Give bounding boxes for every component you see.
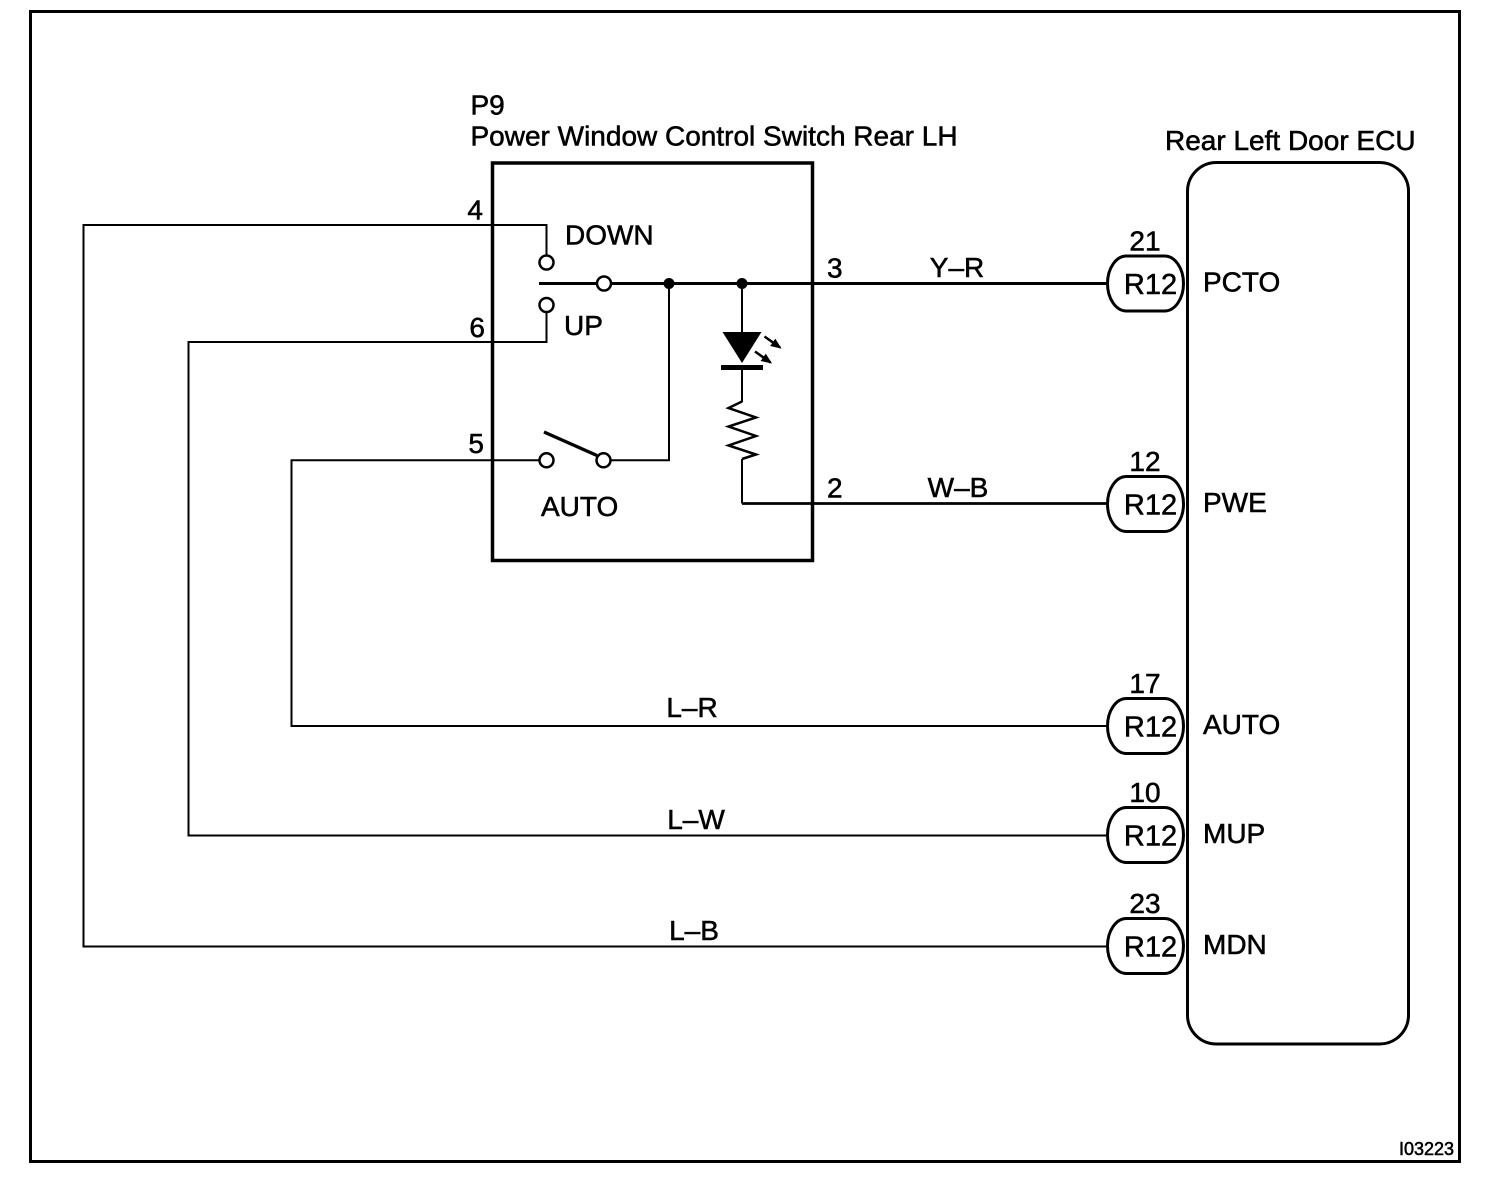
svg-text:AUTO: AUTO — [1203, 709, 1280, 740]
svg-text:10: 10 — [1129, 777, 1160, 808]
svg-text:AUTO: AUTO — [541, 491, 618, 522]
svg-text:12: 12 — [1129, 446, 1160, 477]
svg-text:2: 2 — [827, 473, 843, 504]
svg-text:Rear Left Door ECU: Rear Left Door ECU — [1165, 125, 1416, 156]
svg-text:L–R: L–R — [666, 692, 717, 723]
svg-text:R12: R12 — [1124, 712, 1177, 744]
svg-text:MUP: MUP — [1203, 818, 1265, 849]
svg-text:L–W: L–W — [667, 804, 725, 835]
svg-text:PCTO: PCTO — [1203, 267, 1280, 298]
svg-text:DOWN: DOWN — [565, 220, 654, 251]
svg-text:21: 21 — [1129, 226, 1160, 257]
svg-text:3: 3 — [827, 253, 843, 284]
svg-text:23: 23 — [1129, 888, 1160, 919]
svg-text:R12: R12 — [1124, 490, 1177, 522]
svg-text:R12: R12 — [1124, 821, 1177, 853]
svg-text:6: 6 — [469, 312, 485, 343]
svg-text:17: 17 — [1129, 668, 1160, 699]
svg-text:Y–R: Y–R — [930, 252, 984, 283]
svg-text:4: 4 — [467, 195, 483, 226]
svg-text:I03223: I03223 — [1399, 1139, 1454, 1159]
svg-text:UP: UP — [564, 310, 603, 341]
svg-text:5: 5 — [468, 428, 484, 459]
svg-text:W–B: W–B — [928, 472, 989, 503]
svg-text:R12: R12 — [1124, 269, 1177, 301]
svg-text:R12: R12 — [1124, 932, 1177, 964]
svg-text:MDN: MDN — [1203, 929, 1267, 960]
svg-text:P9: P9 — [471, 90, 505, 121]
svg-text:PWE: PWE — [1203, 487, 1267, 518]
svg-text:L–B: L–B — [669, 915, 719, 946]
svg-text:Power Window Control Switch Re: Power Window Control Switch Rear LH — [471, 121, 958, 152]
